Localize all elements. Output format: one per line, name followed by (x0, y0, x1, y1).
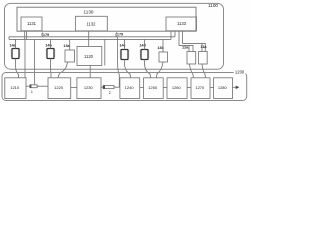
wire: 13b to 1250 (157, 62, 164, 78)
wire: 12a to 1270 (190, 64, 194, 78)
wire: 14c top (124, 39, 126, 49)
component 2 (104, 86, 114, 89)
wire: 13b top (162, 39, 164, 52)
wire: 1113 drop to bus2 (170, 31, 172, 39)
pins 14a (11, 50, 20, 56)
wire: 14c to 1240 (125, 60, 131, 78)
block 1270 (191, 78, 210, 99)
wire: 1270 to 1280 (210, 87, 214, 89)
wire: 1120 to 1230 (89, 66, 91, 78)
wire: 1210 to comp1 (26, 85, 30, 87)
component 1 (30, 85, 37, 88)
bus left end (8, 37, 10, 40)
block 12a (187, 52, 196, 65)
wire: drop to 1210 (24, 39, 26, 77)
bus line 179 upper (9, 36, 175, 38)
svg-text:11a: 11a (200, 45, 207, 49)
svg-text:1: 1 (31, 90, 33, 94)
label 1200 mask (234, 70, 246, 74)
svg-text:179: 179 (117, 33, 123, 37)
block 1260 (167, 78, 187, 99)
block 1280 (214, 78, 233, 99)
chip 14b (47, 49, 54, 59)
wire: comp1 to 1220 (38, 85, 49, 87)
block 1112 (75, 16, 107, 31)
svg-text:1280: 1280 (218, 85, 228, 90)
wire: 14a to 1210 (16, 59, 19, 78)
wire: 1111 double drop (25, 31, 27, 39)
block 1230 (77, 78, 101, 99)
chip 14a (12, 49, 19, 59)
block 1210 (5, 78, 26, 99)
chip 14d (141, 50, 148, 60)
wire: 1113 feed to 11a (183, 31, 206, 52)
wire: 14a top (15, 39, 17, 48)
svg-text:1133: 1133 (177, 21, 187, 26)
svg-text:179: 179 (43, 33, 49, 37)
wire: 13a top (69, 39, 71, 50)
svg-text:12a: 12a (182, 46, 189, 50)
chip 14c (121, 50, 128, 60)
wire: 1260 to 1270 (187, 87, 191, 89)
svg-text:1270: 1270 (195, 85, 205, 90)
block 1220 (48, 78, 71, 99)
wire: comp2 to 1240 (115, 86, 120, 88)
svg-text:1131: 1131 (27, 21, 37, 26)
pins 14b (46, 50, 55, 56)
svg-text:1130: 1130 (84, 10, 94, 15)
wire: drop to comp1 (34, 39, 36, 84)
wire: bus drop to comp2 junction (118, 37, 120, 87)
wire: 11a to 1270 (202, 64, 205, 78)
svg-text:1132: 1132 (86, 21, 96, 26)
wire: 1113 drop to bus1 (174, 31, 176, 37)
display panel box 1130 (17, 7, 196, 31)
block 11a (199, 52, 208, 65)
wire: 1280 output arrow (233, 86, 237, 88)
block 1113 (166, 17, 197, 31)
wire: 1250 to 1260 (163, 87, 167, 89)
block 1250 (144, 78, 164, 99)
svg-text:1260: 1260 (172, 85, 182, 90)
pins 14d (140, 51, 149, 57)
svg-text:1100: 1100 (208, 3, 218, 8)
svg-text:1230: 1230 (84, 85, 94, 90)
wire: 14d top (144, 39, 146, 49)
leader arc for label 179 (right) (115, 33, 118, 37)
svg-text:1240: 1240 (125, 85, 135, 90)
svg-text:1220: 1220 (54, 85, 64, 90)
wire: 1240 to 1250 (140, 87, 144, 89)
svg-text:1120: 1120 (84, 54, 94, 59)
pins 14c (120, 51, 129, 57)
wire: 1113 feed to 12a (179, 31, 193, 52)
device container 1100 (5, 3, 224, 69)
svg-text:2: 2 (109, 91, 111, 95)
svg-text:14b: 14b (45, 44, 52, 48)
block 13b (159, 52, 168, 62)
block 1240 (120, 78, 140, 99)
svg-text:1200: 1200 (235, 70, 245, 75)
bus line 179 lower (9, 38, 171, 40)
wire: 1230 to comp2 (101, 86, 105, 88)
wire: 1220 to 1230 (71, 87, 77, 89)
wire: 14b to 1220 (50, 59, 53, 78)
wire: 14d to 1250 (145, 60, 151, 78)
wire: bus drop right of 1120 (104, 39, 106, 65)
pcb container 1200 (2, 73, 247, 101)
svg-text:1250: 1250 (148, 85, 158, 90)
block 13a (65, 50, 75, 62)
wire: 13a to 1220 (58, 62, 68, 78)
svg-text:14d: 14d (139, 44, 146, 48)
block 1111 (21, 17, 42, 31)
svg-text:1210: 1210 (10, 85, 20, 90)
wire: 14b top (50, 39, 52, 48)
wire: 1112 drop to 1120 (88, 31, 90, 47)
driver block 1120 (77, 47, 102, 66)
leader arc for label 179 (left) (41, 33, 44, 37)
